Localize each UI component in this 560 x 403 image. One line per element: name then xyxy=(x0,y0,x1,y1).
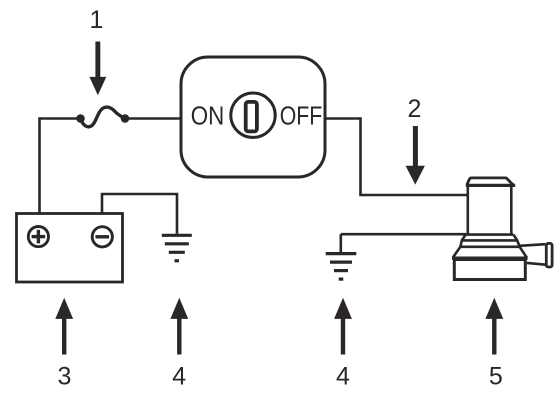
ground symbol right xyxy=(326,234,357,279)
switch key slot xyxy=(246,102,257,131)
battery negative terminal xyxy=(92,227,112,247)
pump flange 2 xyxy=(460,240,461,246)
pump outlet pipe xyxy=(520,244,546,246)
arrow pointing from right label 4 xyxy=(334,298,352,355)
label 2 xyxy=(408,95,422,123)
switch label ON xyxy=(191,101,225,131)
pump M1 xyxy=(452,178,552,280)
label 4 right xyxy=(336,363,350,391)
pump outlet end cap xyxy=(546,243,552,267)
arrow pointing from label 3 xyxy=(55,298,73,355)
svg-text:2: 2 xyxy=(408,95,422,123)
ground symbol left xyxy=(162,235,192,260)
svg-text:5: 5 xyxy=(489,363,503,391)
label 3 xyxy=(58,363,72,391)
pump body xyxy=(466,185,469,234)
label 5 xyxy=(489,363,503,391)
battery positive terminal xyxy=(28,227,48,247)
battery B1 xyxy=(17,214,123,283)
fuse F1 xyxy=(76,107,129,127)
pump base top face xyxy=(453,247,461,258)
pump base front xyxy=(454,260,525,280)
svg-text:4: 4 xyxy=(336,363,350,391)
pump cap xyxy=(467,178,513,185)
arrow pointing to fuse xyxy=(89,42,106,96)
switch label OFF xyxy=(280,101,323,131)
wire fuse to switch xyxy=(125,117,181,120)
wire battery negative to left ground xyxy=(102,194,177,234)
arrow pointing from label 5 xyxy=(485,298,503,355)
svg-text:1: 1 xyxy=(90,6,104,34)
arrow pointing to pump wire xyxy=(406,126,425,185)
wire switch to pump xyxy=(325,119,468,196)
pump flange 1 xyxy=(466,233,514,236)
switch key cylinder xyxy=(231,93,275,137)
wire battery positive to fuse xyxy=(40,119,81,214)
label 1 xyxy=(90,6,104,34)
svg-text:3: 3 xyxy=(58,363,72,391)
label 4 left xyxy=(172,363,186,391)
svg-text:4: 4 xyxy=(172,363,186,391)
svg-text:OFF: OFF xyxy=(280,101,323,131)
wire right ground to pump xyxy=(341,233,466,236)
switch S1 body xyxy=(181,57,325,177)
arrow pointing from left label 4 xyxy=(170,298,188,355)
svg-text:ON: ON xyxy=(191,101,225,131)
